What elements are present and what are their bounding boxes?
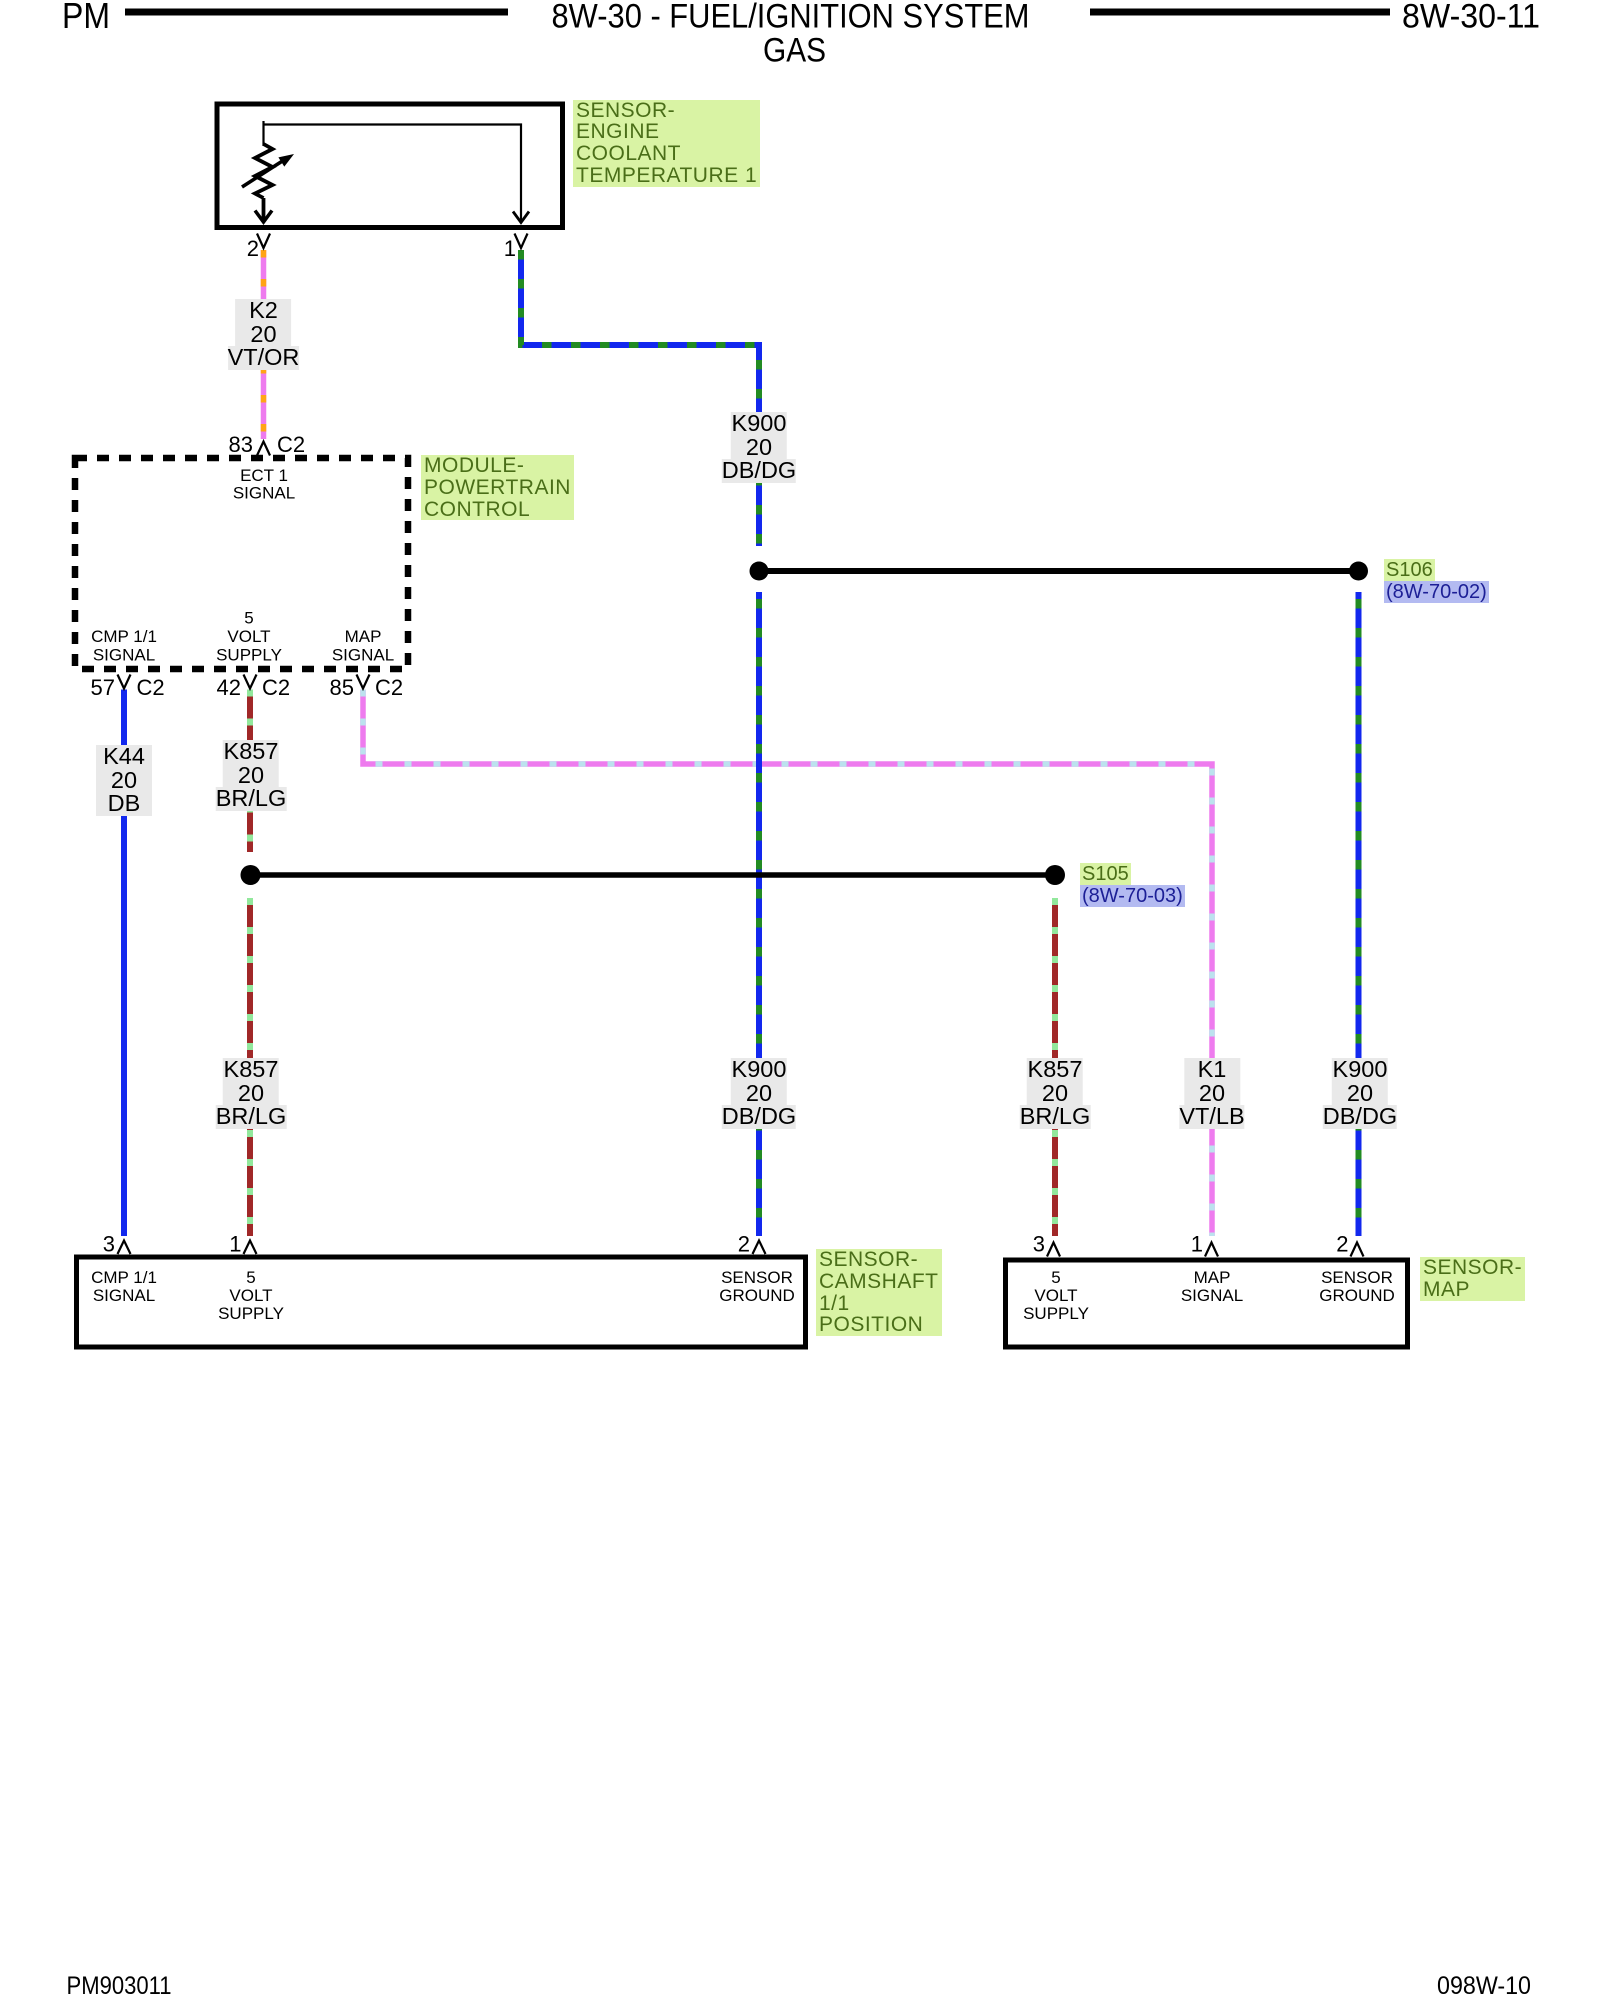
wire K1 VT/LB from PCM pin 85 down, right, down to MAP sensor pin 1	[363, 690, 1212, 1237]
wire label K857 20 BR/LG right	[1020, 1058, 1091, 1129]
PCM label 5 VOLT SUPPLY	[216, 609, 282, 665]
camshaft sensor pin 3 chevron	[118, 1241, 131, 1255]
PCM pin 57 connector chevron	[118, 675, 131, 689]
svg-text:MAP: MAP	[345, 627, 382, 646]
MAP sensor label 5 VOLT SUPPLY	[1023, 1268, 1089, 1323]
svg-text:8W-30-11: 8W-30-11	[1402, 0, 1540, 36]
wire K900 DB/DG from S106 right end down to MAP sensor pin 2	[1356, 592, 1362, 1236]
svg-text:1: 1	[229, 1232, 241, 1257]
svg-text:VOLT: VOLT	[229, 1286, 272, 1305]
module PCM dashed box outline	[75, 458, 408, 669]
wire K900 DB/DG from ECT pin 1 down, right, down to S106	[521, 250, 759, 546]
svg-text:83: 83	[229, 432, 253, 457]
svg-text:GAS: GAS	[763, 32, 826, 70]
loop wire arrowhead at pin 1	[513, 212, 529, 223]
svg-text:1: 1	[1191, 1232, 1203, 1257]
thermistor R inside ECT sensor: top stub and loop wire	[264, 121, 522, 222]
MAP sensor label MAP SIGNAL	[1181, 1268, 1243, 1305]
svg-text:1: 1	[504, 236, 516, 261]
wire K44 DB from PCM pin 57 to camshaft sensor pin 3	[121, 690, 127, 1237]
svg-text:GROUND: GROUND	[719, 1286, 795, 1305]
svg-text:5: 5	[1051, 1268, 1060, 1287]
MAP sensor label SENSOR GROUND	[1319, 1268, 1395, 1305]
wire K2 VT/OR from ECT pin 2 to PCM pin 83	[261, 250, 267, 439]
wire label K857 20 BR/LG lower left	[216, 1058, 287, 1129]
svg-text:C2: C2	[277, 432, 305, 457]
header right rule	[1090, 9, 1390, 16]
PCM label ECT 1 SIGNAL	[233, 466, 295, 503]
svg-text:SUPPLY: SUPPLY	[216, 646, 282, 665]
svg-text:8W-30 - FUEL/IGNITION SYSTEM: 8W-30 - FUEL/IGNITION SYSTEM	[552, 0, 1030, 36]
svg-text:SIGNAL: SIGNAL	[1181, 1286, 1243, 1305]
wire K857 BR/LG from S105 down to camshaft sensor pin 1	[247, 898, 253, 1236]
svg-text:SIGNAL: SIGNAL	[332, 646, 394, 665]
svg-text:85: 85	[330, 675, 354, 700]
svg-text:ECT 1: ECT 1	[240, 466, 288, 485]
svg-text:MAP: MAP	[1194, 1268, 1231, 1287]
wire label K44 20 DB	[96, 745, 152, 816]
component label MODULE-POWERTRAIN CONTROL	[421, 455, 574, 520]
svg-text:SUPPLY: SUPPLY	[218, 1304, 284, 1323]
svg-text:GROUND: GROUND	[1319, 1286, 1395, 1305]
svg-text:SIGNAL: SIGNAL	[233, 484, 295, 503]
svg-text:SENSOR: SENSOR	[721, 1268, 793, 1287]
svg-text:VOLT: VOLT	[1034, 1286, 1077, 1305]
MAP sensor box outline	[1006, 1260, 1408, 1347]
svg-text:3: 3	[103, 1232, 115, 1257]
camshaft sensor pin 1 chevron	[244, 1241, 257, 1255]
splice S105 right junction dot	[1045, 865, 1065, 885]
MAP sensor pin 2 chevron	[1351, 1243, 1364, 1257]
svg-text:C2: C2	[137, 675, 165, 700]
svg-text:VOLT: VOLT	[227, 627, 270, 646]
wire label K900 20 DB/DG lower right	[1323, 1058, 1397, 1129]
svg-text:CMP 1/1: CMP 1/1	[91, 627, 157, 646]
camshaft sensor label CMP 1/1 SIGNAL	[91, 1268, 157, 1305]
svg-text:5: 5	[246, 1268, 255, 1287]
splice S106 left junction dot	[750, 562, 769, 581]
PCM pin 42 connector chevron	[244, 675, 257, 689]
splice S106 bus line	[759, 568, 1359, 574]
svg-text:5: 5	[244, 609, 253, 628]
svg-text:SIGNAL: SIGNAL	[93, 1286, 155, 1305]
svg-text:CMP 1/1: CMP 1/1	[91, 1268, 157, 1287]
wire label K857 20 BR/LG upper left	[216, 740, 287, 811]
ECT pin 2 connector chevron	[257, 234, 270, 249]
svg-text:42: 42	[217, 675, 241, 700]
splice label S106 (8W-70-02)	[1384, 559, 1489, 603]
PCM label MAP SIGNAL	[332, 627, 394, 665]
svg-text:2: 2	[247, 236, 259, 261]
splice label S105 (8W-70-03)	[1080, 863, 1185, 907]
svg-text:2: 2	[1336, 1232, 1348, 1257]
PCM label CMP 1/1 SIGNAL	[91, 627, 157, 665]
splice S105 bus line	[251, 872, 1056, 878]
thermistor bottom lead	[262, 198, 266, 221]
svg-text:57: 57	[91, 675, 115, 700]
wire label K2 20 VT/OR	[228, 299, 300, 370]
component label SENSOR-CAMSHAFT 1/1 POSITION	[816, 1249, 942, 1336]
PCM pin 83 connector chevron	[257, 442, 270, 456]
svg-text:SENSOR: SENSOR	[1321, 1268, 1393, 1287]
PCM pin 85 connector chevron	[357, 675, 370, 689]
thermistor bottom arrowhead	[255, 211, 272, 223]
svg-text:PM903011: PM903011	[67, 1972, 172, 2000]
MAP sensor pin 3 chevron	[1047, 1243, 1060, 1257]
variable-resistor diagonal arrow shaft	[242, 160, 284, 187]
ECT pin 1 connector chevron	[515, 234, 528, 249]
camshaft position sensor box outline	[77, 1257, 806, 1347]
thermistor zigzag body	[255, 144, 273, 198]
svg-text:C2: C2	[375, 675, 403, 700]
component label SENSOR-ENGINE COOLANT TEMPERATURE 1	[573, 100, 760, 187]
camshaft sensor label SENSOR GROUND	[719, 1268, 795, 1305]
svg-text:3: 3	[1033, 1232, 1045, 1257]
camshaft sensor label 5 VOLT SUPPLY	[218, 1268, 284, 1323]
header left rule	[125, 9, 508, 16]
svg-text:C2: C2	[262, 675, 290, 700]
MAP sensor pin 1 chevron	[1205, 1243, 1218, 1257]
svg-text:2: 2	[738, 1232, 750, 1257]
wire label K900 20 DB/DG upper	[722, 412, 796, 483]
svg-text:PM: PM	[62, 0, 110, 36]
splice S106 right junction dot	[1349, 562, 1368, 581]
svg-text:SIGNAL: SIGNAL	[93, 646, 155, 665]
wire K900 DB/DG from S106 down to camshaft sensor pin 2	[756, 592, 762, 1236]
component label SENSOR-MAP	[1420, 1257, 1525, 1301]
wire label K1 20 VT/LB	[1179, 1058, 1244, 1129]
svg-text:098W-10: 098W-10	[1437, 1972, 1531, 2000]
wire K857 BR/LG from PCM pin 42 to S105	[247, 690, 253, 853]
sensor ECT box outline	[217, 104, 563, 228]
splice S105 left junction dot	[241, 865, 261, 885]
wire label K900 20 DB/DG lower center	[722, 1058, 796, 1129]
camshaft sensor pin 2 chevron	[753, 1241, 766, 1255]
svg-text:SUPPLY: SUPPLY	[1023, 1304, 1089, 1323]
variable-resistor diagonal arrowhead	[278, 154, 294, 167]
wire K857 BR/LG from S105 right end down to MAP sensor pin 3	[1052, 898, 1058, 1236]
